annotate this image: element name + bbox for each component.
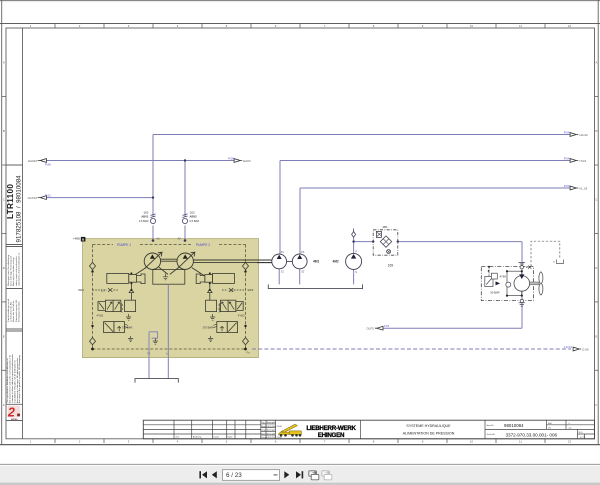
svg-text:Datum: Datum — [214, 436, 220, 439]
svg-text:12: 12 — [568, 24, 572, 28]
svg-text:P.06: P.06 — [228, 156, 234, 160]
svg-text:1,5: 1,5 — [230, 288, 234, 292]
svg-text:98010084: 98010084 — [504, 423, 524, 428]
svg-text:Beneryd0: Beneryd0 — [267, 429, 275, 432]
svg-text:Beneryd0: Beneryd0 — [267, 432, 275, 435]
svg-text:-1: -1 — [568, 423, 570, 425]
svg-text:EHINGEN: EHINGEN — [318, 432, 345, 439]
svg-text:LS.01: LS.01 — [564, 345, 572, 349]
svg-text:B: B — [3, 129, 5, 133]
svg-text:KL.03: KL.03 — [580, 187, 588, 191]
svg-text:-1.6: -1.6 — [568, 427, 571, 429]
svg-text:1,5: 1,5 — [101, 288, 105, 292]
svg-text:4B1: 4B1 — [382, 225, 388, 229]
svg-text:P.04: P.04 — [564, 130, 570, 134]
svg-text:LIEBHERR-WERK: LIEBHERR-WERK — [306, 425, 356, 432]
svg-text:4Y82: 4Y82 — [238, 314, 245, 318]
svg-text:ABV2: ABV2 — [190, 215, 198, 219]
svg-text:P.01: P.01 — [45, 193, 51, 197]
svg-text:2: 2 — [7, 405, 15, 419]
svg-text:Beneryd0: Beneryd0 — [267, 421, 275, 424]
svg-text:LTR1100: LTR1100 — [6, 184, 15, 219]
svg-text:Rechte fuer den Fall der: Rechte fuer den Fall der — [12, 300, 15, 322]
svg-text:Weitergabe sowie Vervielfaelti: Weitergabe sowie Vervielfaeltigung — [7, 255, 10, 286]
svg-text:Zeichn-Nr.: Zeichn-Nr. — [487, 433, 496, 436]
svg-text:D: D — [595, 266, 597, 270]
svg-text:A: A — [3, 61, 5, 65]
svg-text:C: C — [3, 198, 5, 202]
svg-text:A: A — [595, 61, 597, 65]
svg-text:03.05.2003 13:08: 03.05.2003 13:08 — [267, 437, 282, 439]
svg-text:10: 10 — [470, 24, 474, 28]
svg-text:C: C — [595, 198, 597, 202]
svg-text:HA010: HA010 — [28, 159, 38, 163]
svg-text:D: D — [3, 266, 5, 270]
svg-text:A2: A2 — [178, 237, 182, 241]
svg-text:ALIMENTATION DE PRESSION: ALIMENTATION DE PRESSION — [403, 431, 455, 435]
svg-text:4M2: 4M2 — [332, 260, 339, 264]
svg-text:ABV1: ABV1 — [141, 215, 149, 219]
svg-text:0,5 BAR: 0,5 BAR — [190, 219, 200, 223]
svg-text:90 BAR: 90 BAR — [490, 290, 499, 294]
svg-text:169: 169 — [388, 264, 394, 268]
svg-text:Änderung: Änderung — [193, 436, 201, 439]
svg-text:Norm: Norm — [261, 432, 266, 435]
svg-text:stattet, soweit nicht ausdruec: stattet, soweit nicht ausdruecklich — [15, 256, 18, 286]
svg-text:Name: Name — [228, 437, 233, 439]
svg-text:6 / 23: 6 / 23 — [580, 437, 585, 439]
svg-text:the event of the grant of a pa: the event of the grant of a patent. GM-E… — [18, 355, 21, 403]
svg-text:P.03: P.03 — [564, 184, 570, 188]
svg-text:PUMPE 2: PUMPE 2 — [196, 243, 210, 247]
svg-text:Eintragung vorbehalten.: Eintragung vorbehalten. — [17, 300, 20, 322]
svg-text:A1: A1 — [157, 237, 161, 241]
svg-text:Patenterteilung oder GM-: Patenterteilung oder GM- — [15, 299, 18, 322]
svg-text:Gepr: Gepr — [261, 429, 266, 432]
svg-text:+4B0: +4B0 — [73, 237, 80, 241]
svg-text:Fa: Fa — [247, 351, 251, 355]
svg-text:P.04: P.04 — [564, 156, 570, 160]
svg-text:OLP2: OLP2 — [366, 327, 374, 331]
svg-text:E: E — [595, 335, 597, 339]
svg-text:IT.03: IT.03 — [580, 159, 587, 163]
svg-text:162: 162 — [143, 211, 148, 215]
svg-text:SYSTEME HYDRAULIQUE: SYSTEME HYDRAULIQUE — [406, 424, 451, 428]
svg-text:Ident-Nr.: Ident-Nr. — [487, 424, 495, 427]
svg-text:6 / 23: 6 / 23 — [226, 472, 242, 479]
svg-text:917825108 / 98010084: 917825108 / 98010084 — [15, 175, 22, 243]
svg-text:B: B — [595, 129, 597, 133]
svg-text:Bl. 6: Bl. 6 — [579, 432, 583, 434]
svg-text:162: 162 — [190, 211, 195, 215]
svg-text:PUMPE 1: PUMPE 1 — [117, 243, 131, 247]
svg-text:F: F — [3, 403, 5, 407]
svg-text:370 BAR: 370 BAR — [203, 325, 214, 329]
svg-text:HA03: HA03 — [243, 159, 251, 163]
svg-text:Zust: Zust — [176, 436, 180, 439]
svg-text:zugestanden. Zuwiderhandlungen: zugestanden. Zuwiderhandlungen ver- — [17, 252, 20, 286]
svg-text:Tag: Tag — [261, 422, 264, 424]
svg-text:Mitteilung ihres Inhaltes nich: Mitteilung ihres Inhaltes nicht ge- — [12, 256, 15, 286]
svg-text:E: E — [3, 335, 5, 339]
svg-text:0,5 BAR: 0,5 BAR — [139, 219, 149, 223]
svg-text:HA.02: HA.02 — [580, 133, 589, 137]
svg-text:F: F — [596, 403, 598, 407]
svg-text:OLP10: OLP10 — [28, 196, 38, 200]
svg-text:11: 11 — [519, 440, 522, 444]
svg-text:4M1: 4M1 — [312, 260, 319, 264]
svg-text:176: 176 — [384, 324, 389, 328]
svg-text:370 BAR: 370 BAR — [122, 325, 133, 329]
svg-text:9W2: 9W2 — [248, 288, 254, 292]
svg-text:Urs: Urs — [548, 426, 551, 429]
svg-text:dieser Unterlage, Verwertung u: dieser Unterlage, Verwertung und — [10, 256, 13, 286]
svg-text:12: 12 — [568, 440, 572, 444]
svg-text:zu Schadenersatz. Alle: zu Schadenersatz. Alle — [10, 301, 13, 322]
svg-text:3372-970.33.00.001- 006: 3372-970.33.00.001- 006 — [506, 433, 558, 438]
svg-text:4Y81: 4Y81 — [97, 314, 104, 318]
svg-text:P.06: P.06 — [45, 162, 51, 166]
svg-text:O.06: O.06 — [582, 348, 589, 352]
svg-text:9W1: 9W1 — [78, 288, 84, 292]
svg-text:4Y98: 4Y98 — [500, 275, 507, 279]
svg-text:10: 10 — [470, 440, 474, 444]
svg-text:Bearb: Bearb — [261, 425, 266, 428]
svg-text:series: series — [11, 419, 18, 421]
svg-text:03.05.2003 13:08: 03.05.2003 13:08 — [267, 426, 282, 428]
svg-text:11: 11 — [519, 24, 522, 28]
